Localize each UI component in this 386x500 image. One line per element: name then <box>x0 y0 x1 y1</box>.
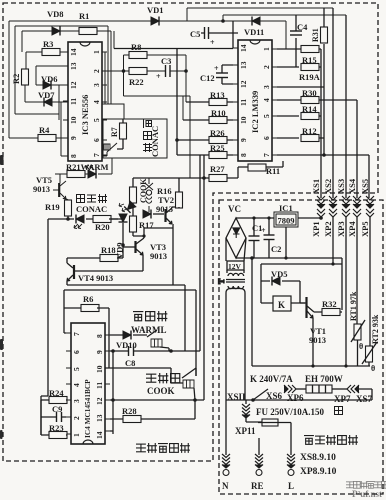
svg-text:R26: R26 <box>210 128 225 138</box>
svg-text:3: 3 <box>262 85 271 89</box>
svg-text:R23: R23 <box>49 423 64 433</box>
svg-text:R1: R1 <box>79 11 89 21</box>
resistor R31 <box>321 27 328 43</box>
svg-text:XS5: XS5 <box>360 179 370 194</box>
svg-text:VD8: VD8 <box>47 9 64 19</box>
svg-text:2: 2 <box>92 69 101 73</box>
svg-text:XS7: XS7 <box>356 394 373 404</box>
wire y26 loop <box>15 26 108 120</box>
svg-text:R14: R14 <box>302 104 317 114</box>
diode VD1 <box>151 17 159 26</box>
svg-text:IC2 LM339: IC2 LM339 <box>250 91 260 133</box>
svg-text:7: 7 <box>262 153 271 157</box>
svg-text:5: 5 <box>262 114 271 118</box>
counter IC4 body <box>71 323 105 444</box>
svg-text:C4: C4 <box>297 22 308 32</box>
connector XS3/XP3 <box>342 196 350 208</box>
svg-text:R4: R4 <box>39 125 50 135</box>
wire y178 <box>133 178 204 187</box>
svg-text:P²uf.nst: P²uf.nst <box>352 489 382 499</box>
svg-text:13: 13 <box>239 61 248 69</box>
svg-text:C5: C5 <box>190 29 200 39</box>
diode VD6 <box>43 81 51 90</box>
svg-text:C2: C2 <box>271 244 281 254</box>
svg-text:8: 8 <box>239 153 248 157</box>
capacitor C2 <box>268 218 270 258</box>
svg-text:C8: C8 <box>125 358 135 368</box>
svg-text:R18: R18 <box>101 245 116 255</box>
svg-text:C9: C9 <box>52 404 62 414</box>
resistor R17 <box>130 216 137 232</box>
svg-text:R20: R20 <box>95 222 110 232</box>
switch WARML button <box>147 330 169 351</box>
resistor R24 <box>49 397 67 404</box>
svg-text:IC4 MC14541BCP: IC4 MC14541BCP <box>83 379 92 438</box>
wire warm-lamp line y219 <box>48 218 123 220</box>
svg-text:VD7: VD7 <box>38 90 55 100</box>
connector XS5/XP5 <box>366 196 374 208</box>
svg-text:12: 12 <box>239 80 248 88</box>
svg-text:4: 4 <box>72 383 81 387</box>
svg-text:R22: R22 <box>129 77 144 87</box>
svg-text:13: 13 <box>95 414 104 422</box>
svg-text:R3: R3 <box>43 39 53 49</box>
node box around keep-warm button <box>103 119 167 158</box>
label sub board <box>304 435 358 445</box>
op-amp/timer IC3 body <box>68 42 102 161</box>
svg-text:+: + <box>214 64 219 73</box>
capacitor C5 <box>114 48 233 50</box>
wire R19A to XS2 <box>277 8 333 198</box>
sub board dashed border <box>219 200 383 494</box>
svg-text:+: + <box>210 38 215 47</box>
wire R12 <box>277 137 324 139</box>
wire R31 <box>323 8 325 155</box>
svg-text:1: 1 <box>72 433 81 437</box>
svg-text:+: + <box>261 226 266 235</box>
svg-text:1: 1 <box>262 47 271 51</box>
label cook button <box>146 374 156 382</box>
resistor R12 <box>301 135 319 142</box>
svg-text:8: 8 <box>95 334 104 338</box>
watermark <box>346 481 386 499</box>
svg-text:11: 11 <box>69 98 78 105</box>
resistor R14 <box>301 113 319 120</box>
wire VD6 line to pin12 <box>36 85 68 114</box>
svg-text:COOK: COOK <box>147 386 175 396</box>
wire 9V rails <box>236 218 342 366</box>
svg-text:XS2: XS2 <box>323 179 333 194</box>
wire x113 <box>110 351 113 434</box>
wire bottom rail y366 <box>252 365 370 367</box>
svg-text:XS3: XS3 <box>336 179 346 194</box>
svg-text:R2: R2 <box>11 74 21 84</box>
label CONAC vertical <box>143 119 160 157</box>
terminal RE <box>258 438 260 455</box>
transistor VT4 <box>73 265 75 279</box>
svg-text:9013: 9013 <box>150 251 167 261</box>
label main board <box>136 443 190 453</box>
wire VD7 line to pin11 <box>25 85 68 156</box>
resistor R20 <box>93 216 111 223</box>
label CONAC lamp <box>76 194 107 214</box>
svg-text:9013: 9013 <box>309 335 326 345</box>
wire left vertical x9 <box>8 21 10 138</box>
svg-text:XS6: XS6 <box>266 391 283 401</box>
wire rail y264 <box>261 258 342 310</box>
wire y99 <box>124 96 191 178</box>
svg-text:R31: R31 <box>311 28 320 42</box>
svg-text:XP4: XP4 <box>347 221 357 237</box>
svg-text:1: 1 <box>92 50 101 54</box>
svg-text:CONAC: CONAC <box>76 204 107 214</box>
resistor R16 <box>176 192 183 208</box>
svg-text:R30: R30 <box>302 88 317 98</box>
svg-text:2: 2 <box>72 416 81 420</box>
wire XP columns down <box>321 217 370 366</box>
svg-text:FU 250V/10A.150: FU 250V/10A.150 <box>256 407 324 417</box>
svg-text:13: 13 <box>69 62 78 70</box>
svg-text:R25: R25 <box>210 143 225 153</box>
wire C4 <box>295 15 297 67</box>
svg-text:XP6: XP6 <box>287 393 304 403</box>
resistor R6 <box>81 305 99 312</box>
svg-text:K 240V/7A: K 240V/7A <box>250 374 293 384</box>
svg-text:R19: R19 <box>45 202 60 212</box>
svg-text:L: L <box>288 481 294 491</box>
resistor R1 <box>79 28 97 35</box>
resistor R13 <box>209 99 227 106</box>
diode VD11 <box>252 17 260 26</box>
svg-text:COOK: COOK <box>139 178 148 203</box>
bridge rectifier VC <box>226 218 246 258</box>
diode VD8 <box>52 27 60 36</box>
wire y400 <box>110 399 204 401</box>
svg-text:θ: θ <box>371 364 375 373</box>
svg-text:R6: R6 <box>83 294 93 304</box>
resistor R21 <box>67 171 85 178</box>
svg-text:14: 14 <box>95 431 104 439</box>
terminal N <box>225 400 227 455</box>
transistor VT3 <box>123 246 135 248</box>
wire pin7 line y155 to XS5 <box>277 87 369 198</box>
transistor VT5 <box>53 174 60 190</box>
svg-text:R12: R12 <box>302 126 317 136</box>
wire R14 to XS4 <box>277 115 321 117</box>
svg-text:14: 14 <box>239 44 248 52</box>
diode VD9 (vertical) <box>109 218 118 220</box>
wire center vertical D <box>195 290 197 376</box>
svg-text:10: 10 <box>95 365 104 373</box>
svg-text:4: 4 <box>92 100 101 104</box>
connector XS1/XP1 <box>317 196 325 208</box>
label 12V <box>227 261 244 270</box>
resistor R15 <box>301 46 319 53</box>
resistor R7 <box>120 123 127 139</box>
svg-text:10: 10 <box>69 116 78 124</box>
connector XS4/XP4 <box>353 196 361 208</box>
svg-text:R13: R13 <box>210 90 225 100</box>
resistor R18 <box>100 255 118 262</box>
heater EH <box>306 385 332 393</box>
label porridge button <box>133 312 143 321</box>
resistor R2 <box>22 69 29 85</box>
transistor VT1 <box>305 297 307 318</box>
resistor R26 <box>209 137 227 144</box>
switch CONAC (keep-warm button) <box>102 143 117 156</box>
svg-text:VT4 9013: VT4 9013 <box>78 273 113 283</box>
svg-text:VD5: VD5 <box>271 269 288 279</box>
wire y31 VD8-R1 <box>22 31 111 85</box>
svg-text:R10: R10 <box>211 108 226 118</box>
svg-text:6: 6 <box>92 138 101 142</box>
svg-text:R8: R8 <box>131 42 141 52</box>
resistor R32 <box>322 309 340 316</box>
resistor R11 <box>248 164 266 171</box>
svg-text:5: 5 <box>92 118 101 122</box>
transistor TV2 <box>164 209 166 222</box>
svg-text:R24: R24 <box>49 388 64 398</box>
relay K coil <box>273 296 291 311</box>
resistor R10 <box>209 117 227 124</box>
svg-text:XP7: XP7 <box>334 394 351 404</box>
svg-text:T: T <box>217 278 226 284</box>
svg-text:R7: R7 <box>110 127 119 137</box>
capacitor C4 <box>290 31 302 35</box>
wire R3 line to pin14 <box>26 52 68 69</box>
svg-text:4: 4 <box>262 98 271 102</box>
svg-text:9: 9 <box>69 136 78 140</box>
wire R28 y419 <box>110 400 195 419</box>
svg-text:EH 700W: EH 700W <box>305 374 343 384</box>
IC3 labels <box>69 48 101 158</box>
thermistor RT2 <box>366 346 373 362</box>
LED keep-warm lamp <box>76 215 84 224</box>
svg-text:N: N <box>222 481 229 491</box>
svg-text:+: + <box>156 72 161 81</box>
svg-text:CONAC: CONAC <box>150 126 160 157</box>
svg-text:9: 9 <box>239 138 248 142</box>
transformer T <box>217 238 246 400</box>
svg-text:XP5: XP5 <box>360 221 370 237</box>
resistor R27 <box>209 175 227 182</box>
wire x48 long down <box>41 219 48 435</box>
wire top-right rail y6 <box>187 8 346 21</box>
svg-text:9013: 9013 <box>156 204 173 214</box>
resistor cook sense <box>130 187 137 203</box>
node junction box above R7 <box>102 104 124 119</box>
relay contact K <box>253 389 268 400</box>
wire VD5 branch <box>261 281 306 303</box>
thermistor RT1 <box>354 324 361 340</box>
wire VD11 line y20 <box>232 21 234 48</box>
resistor R3 <box>42 49 60 56</box>
resistor R22 <box>129 68 147 75</box>
svg-text:WARML: WARML <box>131 325 167 335</box>
resistor R25 <box>209 152 227 159</box>
svg-text:12: 12 <box>95 397 104 405</box>
capacitor C1 <box>253 218 255 258</box>
svg-text:6: 6 <box>72 350 81 354</box>
wire pin13 loop <box>36 66 68 85</box>
resistor R4 <box>38 135 56 142</box>
wire top rail y21 <box>9 21 286 49</box>
wire pin1 up <box>105 26 114 104</box>
svg-text:VC: VC <box>228 204 241 214</box>
svg-text:8: 8 <box>69 154 78 158</box>
svg-text:5: 5 <box>72 367 81 371</box>
wire center vertical E <box>203 155 205 400</box>
svg-text:12V: 12V <box>228 262 242 271</box>
svg-text:XP8.9.10: XP8.9.10 <box>300 467 337 477</box>
capacitor C12 <box>216 73 228 78</box>
svg-text:R11: R11 <box>266 166 280 176</box>
svg-text:XSII: XSII <box>227 392 246 402</box>
terminal L <box>287 454 295 468</box>
diode VD7 <box>44 98 52 107</box>
svg-text:R27: R27 <box>210 164 225 174</box>
svg-text:VD6: VD6 <box>41 74 58 84</box>
diode VD5 <box>272 277 280 286</box>
connector XP7/XS7 chevrons <box>347 385 359 393</box>
wire main line y400 <box>226 399 372 401</box>
capacitor C8 <box>129 346 134 356</box>
resistor R19 <box>65 200 72 216</box>
LED cook lamp (diagonal) <box>124 201 136 213</box>
svg-text:14: 14 <box>69 48 78 56</box>
svg-text:VD1: VD1 <box>147 5 164 15</box>
wire rail y285 <box>67 285 185 351</box>
svg-text:XS8.9.10: XS8.9.10 <box>300 453 336 463</box>
svg-text:R28: R28 <box>122 406 137 416</box>
svg-text:3: 3 <box>92 83 101 87</box>
svg-text:2: 2 <box>262 65 271 69</box>
svg-text:12: 12 <box>69 81 78 89</box>
svg-text:3: 3 <box>72 399 81 403</box>
svg-text:XS1: XS1 <box>311 179 321 194</box>
svg-text:C12: C12 <box>200 73 215 83</box>
svg-text:θ: θ <box>359 342 363 351</box>
resistor R8 <box>129 52 147 59</box>
svg-text:RT1 97k: RT1 97k <box>349 291 358 321</box>
svg-text:XP3: XP3 <box>336 221 346 237</box>
wire K coil leads <box>261 302 305 304</box>
resistor R30 <box>301 97 319 104</box>
resistor R19A <box>301 64 319 71</box>
wire ground rail <box>236 257 342 259</box>
wire R30 to XS3 <box>277 15 357 198</box>
resistor R23 <box>49 432 67 439</box>
svg-text:IC3 NE556: IC3 NE556 <box>80 95 90 135</box>
svg-text:9: 9 <box>95 350 104 354</box>
diode to TV2 base <box>143 210 151 219</box>
LED warm indicator <box>88 170 96 179</box>
wire pin2 to R22 ladder <box>107 55 186 120</box>
IC3 pin stubs left <box>63 52 107 156</box>
diode VD10 <box>123 331 131 340</box>
capacitor C9 <box>57 412 62 422</box>
comparator IC2 body <box>238 40 272 161</box>
svg-text:11: 11 <box>239 99 248 106</box>
wire pin8 VD10 line <box>110 334 147 336</box>
fuse FU <box>262 419 278 426</box>
svg-text:R32: R32 <box>322 299 337 309</box>
wire C8 line y351 <box>110 155 200 351</box>
svg-text:10: 10 <box>239 116 248 124</box>
switch COOK button <box>171 368 196 400</box>
svg-text:VD11: VD11 <box>244 27 264 37</box>
wire R4 line to pin9 <box>9 137 68 139</box>
resistor R28 <box>123 416 141 423</box>
svg-text:XP11: XP11 <box>235 426 256 436</box>
svg-text:7: 7 <box>92 153 101 157</box>
connector XS2/XP2 <box>329 196 337 208</box>
svg-text:R19A: R19A <box>299 72 321 82</box>
wire R15 to XS1 <box>277 49 321 198</box>
svg-text:7: 7 <box>72 332 81 336</box>
svg-text:XP2: XP2 <box>323 221 333 237</box>
svg-text:C3: C3 <box>161 56 171 66</box>
svg-text:XS4: XS4 <box>347 178 357 194</box>
scan artifacts <box>0 155 4 439</box>
transformer primary winding box <box>226 289 245 401</box>
capacitor C3 <box>166 65 171 77</box>
svg-text:7809: 7809 <box>278 216 295 226</box>
connector XP6 chevrons <box>284 385 296 393</box>
svg-text:RE: RE <box>251 481 264 491</box>
svg-text:XP1: XP1 <box>311 221 321 237</box>
svg-text:RT2 93k: RT2 93k <box>371 314 380 344</box>
svg-text:11: 11 <box>95 382 104 389</box>
svg-text:6: 6 <box>262 136 271 140</box>
wire R21 line <box>55 158 112 174</box>
magnet sensor coil <box>145 178 153 212</box>
svg-text:9013: 9013 <box>33 184 50 194</box>
svg-text:K: K <box>278 300 285 310</box>
